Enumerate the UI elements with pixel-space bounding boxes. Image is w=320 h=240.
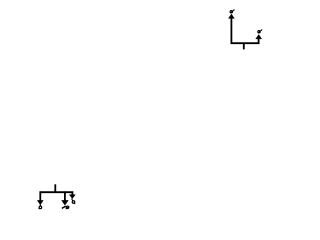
net label 0 for ground G2 (slashed zero) <box>258 30 262 33</box>
wire stub down from middle of top-right bus (node A) <box>243 43 245 49</box>
net label 0 for ground G4 (two overlapped slashed zeros) <box>62 206 69 209</box>
net label 0 for ground G3 (slashed zero, rotated) <box>39 205 42 210</box>
wire vertical from ground G2 down to horizontal bus <box>258 39 260 44</box>
wire vertical from ground G1 down to horizontal bus (top-right cluster) <box>230 18 232 44</box>
wire vertical drop to ground G3 <box>39 191 41 200</box>
wire stub up from middle of bottom-left bus (node B) <box>54 184 56 192</box>
net label 0 for ground G5 (slashed zero, rotated) <box>72 199 76 205</box>
net label 0 for ground G1 (slashed zero) <box>230 10 234 13</box>
wire horizontal bus (top-right cluster) <box>231 42 260 44</box>
ground G1 triangle (points up, top-right cluster left) <box>228 14 234 18</box>
ground G3 triangle (points down, bottom-left cluster left) <box>37 200 43 204</box>
wire vertical drop to ground G5 <box>71 191 73 194</box>
ground G5 triangle (points down, bottom-left cluster right) <box>69 195 75 199</box>
wire horizontal bus (bottom-left cluster) <box>40 191 74 193</box>
ground G4 triangle (points down, bottom-left cluster middle) <box>62 200 69 205</box>
wire vertical drop to ground G4 <box>64 191 66 200</box>
ground G2 triangle (points up, top-right cluster right) <box>256 35 262 39</box>
